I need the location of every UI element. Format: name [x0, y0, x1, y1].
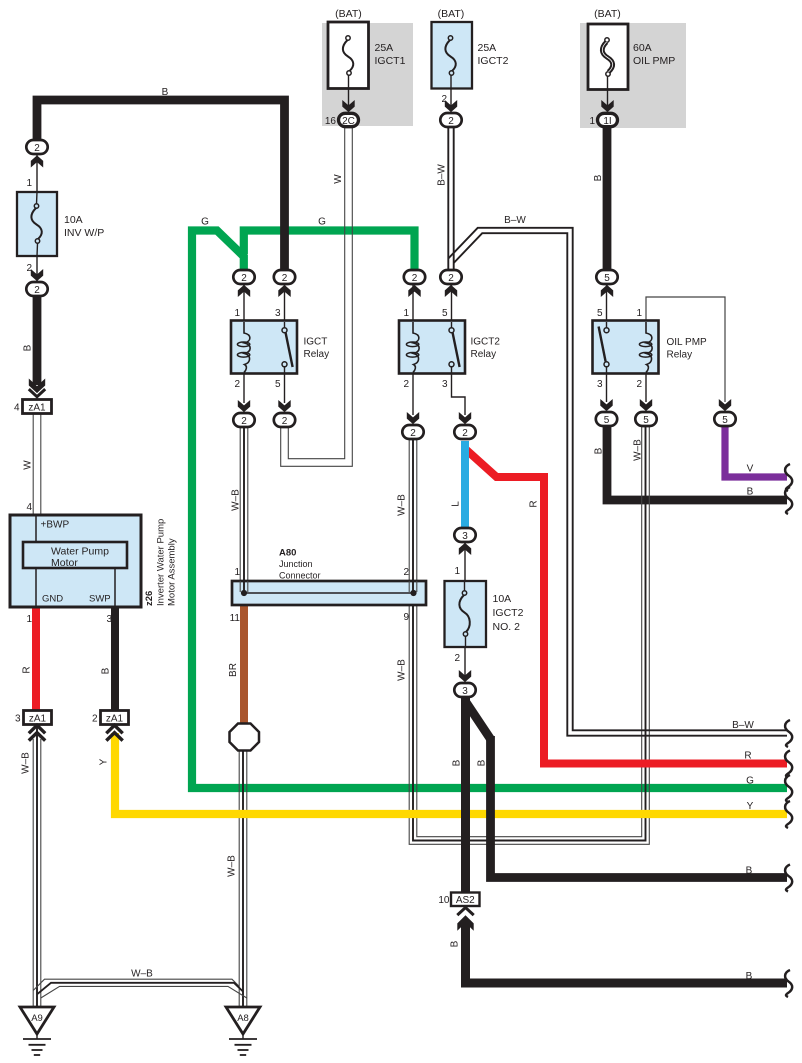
svg-text:4: 4 — [14, 403, 20, 414]
wire Y yellow from 2 zA1 to right edge — [115, 733, 787, 814]
svg-text:Relay: Relay — [667, 350, 693, 361]
wire W-B left from 3 zA1 to ground A9 — [32, 739, 34, 1007]
svg-text:11: 11 — [230, 613, 241, 624]
fuse 10A IGCT2 NO.2 box — [445, 581, 487, 647]
svg-text:1: 1 — [454, 566, 460, 577]
wire pin line OIL PMP relay pin5 — [606, 284, 608, 321]
connector 3 zA1 box — [24, 711, 52, 725]
wire pin line IGCT2 relay pin5 — [451, 284, 453, 321]
wire pin line z26 SWP inside — [114, 568, 116, 606]
connector 4 zA1 box — [23, 400, 52, 414]
arrow up into IGCT relay pin3 oval — [278, 285, 290, 297]
svg-text:B: B — [594, 447, 605, 454]
node A80 pin1 dot — [241, 590, 247, 596]
connector 2 zA1 box — [101, 711, 129, 725]
svg-text:G: G — [318, 217, 326, 228]
wire W-B loop A80 pin9 down right and up to OIL PMP relay pin2 oval — [409, 426, 649, 844]
svg-text:Junction: Junction — [279, 559, 313, 569]
svg-text:9: 9 — [403, 612, 409, 623]
arrow up into OIL PMP relay pin5 oval — [601, 285, 613, 297]
ground A8 — [226, 1007, 260, 1034]
fuse 25A IGCT1 box — [328, 22, 369, 89]
svg-text:3: 3 — [442, 379, 448, 390]
svg-text:2: 2 — [241, 273, 247, 284]
svg-text:zA1: zA1 — [28, 403, 46, 414]
svg-text:V: V — [747, 464, 754, 475]
svg-text:25A: 25A — [478, 42, 497, 54]
relay IGCT coil — [244, 322, 250, 373]
svg-text:B: B — [593, 174, 604, 181]
svg-text:2C: 2C — [342, 116, 355, 127]
wire pin line IGCT2 relay pin3 jog — [452, 373, 466, 415]
wire B-W from IGCT2 fuse down to relay pin5 oval — [447, 127, 449, 270]
svg-text:1: 1 — [403, 308, 409, 319]
wire L blue between ovals 3 — [461, 441, 469, 529]
arrow up into IGCT2 relay pin5 oval — [445, 285, 457, 297]
svg-text:2: 2 — [403, 567, 409, 578]
svg-text:OIL PMP: OIL PMP — [633, 55, 675, 67]
wire pin line OIL PMP relay pin3 — [606, 373, 608, 402]
wire W-B from IGCT2 relay pin2 oval to A80 pin2 — [408, 439, 410, 581]
wire B z26 SWP to 2 zA1 — [111, 606, 119, 711]
node oval 2 IGCT relay pin3 — [274, 270, 295, 284]
svg-text:5: 5 — [275, 379, 281, 390]
wire pin line IGCT2 relay pin1 — [412, 284, 414, 321]
relay IGCT2 box — [399, 321, 465, 374]
svg-text:2: 2 — [448, 273, 454, 284]
wire BR brown A80 pin11 to octagon — [240, 605, 248, 724]
svg-text:W–B: W–B — [397, 659, 408, 681]
node oval 5 OIL PMP relay pin3 lower — [596, 412, 617, 426]
svg-text:25A: 25A — [375, 42, 394, 54]
wire pin line IGCT relay pin3 — [284, 284, 286, 321]
node A80 pin2 dot — [410, 590, 416, 596]
svg-text:AS2: AS2 — [456, 895, 475, 906]
wire pin line IGCT relay pin5 — [284, 373, 286, 403]
arrow down into oval2 below INV W/P fuse — [31, 269, 43, 281]
node oval 2 IGCT2 relay pin5 — [440, 270, 461, 284]
svg-text:1: 1 — [234, 308, 240, 319]
svg-text:W: W — [333, 174, 344, 184]
wire pin line OIL PMP relay pin2 — [645, 373, 647, 402]
svg-text:3: 3 — [15, 714, 21, 725]
arrow down into oval2 under IGCT2 fuse — [445, 100, 457, 112]
svg-text:IGCT2: IGCT2 — [471, 337, 501, 348]
svg-text:60A: 60A — [633, 42, 652, 54]
node oval 2 IGCT2 relay pin1 — [404, 270, 425, 284]
svg-text:Connector: Connector — [279, 571, 321, 581]
svg-text:2: 2 — [454, 653, 460, 664]
node oval 2 IGCT relay pin1 — [233, 270, 254, 284]
svg-text:3: 3 — [462, 531, 468, 542]
svg-text:R: R — [744, 751, 751, 762]
svg-text:B–W: B–W — [437, 164, 448, 186]
svg-text:1: 1 — [26, 614, 32, 625]
wire pin line oval3 to IGCT2 NO.2 fuse — [464, 543, 466, 581]
wire z26 pin4 internal lead — [35, 516, 37, 542]
svg-text:B–W: B–W — [504, 215, 526, 226]
connector arrow double chevron into 4 zA1 — [29, 379, 45, 397]
wire pin line oval2 to INV W/P fuse — [36, 155, 38, 204]
wire pin line OIL PMP relay pin1 to oval5 — [646, 297, 725, 402]
svg-text:2: 2 — [462, 428, 468, 439]
node oval 2C — [339, 113, 359, 127]
fuse panel OIL PMP (gray) — [580, 23, 686, 128]
wire W from connector 2C down then to IGCT relay pin5 oval — [288, 127, 344, 459]
fuse 25A IGCT2 box — [432, 22, 473, 89]
svg-text:2: 2 — [282, 273, 288, 284]
svg-text:2: 2 — [412, 273, 418, 284]
svg-text:R: R — [22, 666, 33, 673]
wire pin line OIL PMP fuse to 1I — [607, 76, 609, 107]
svg-text:B: B — [452, 759, 463, 766]
brace G wire — [785, 775, 792, 802]
svg-text:W–B: W–B — [231, 489, 242, 511]
svg-text:2: 2 — [241, 416, 247, 427]
svg-text:W: W — [23, 460, 34, 470]
relay OIL PMP coil — [646, 322, 652, 373]
svg-text:1: 1 — [234, 567, 240, 578]
fuse panel IGCT1 (gray) — [322, 23, 413, 126]
svg-text:1: 1 — [636, 308, 642, 319]
arrow down from IGCT2 relay pin2 — [407, 412, 419, 424]
octagon splice — [230, 724, 260, 751]
svg-text:B: B — [23, 344, 34, 351]
arrow up into IGCT relay pin1 oval — [238, 285, 250, 297]
connector arrow chevrons below 3 zA1 — [29, 725, 45, 740]
svg-text:(BAT): (BAT) — [438, 8, 465, 20]
svg-text:2: 2 — [92, 714, 98, 725]
brace V wire — [785, 464, 792, 491]
wire B thick horizontal y=500 from relay pin3 to right edge — [607, 425, 787, 500]
svg-text:B: B — [746, 971, 753, 982]
node oval 2 IGCT2 relay pin2 lower — [402, 425, 423, 439]
node oval 2 below INV W/P fuse — [26, 282, 47, 296]
svg-text:B: B — [101, 667, 112, 674]
node oval 5 OIL PMP relay pin2 lower — [635, 412, 656, 426]
node oval 2 IGCT relay pin5 lower — [274, 413, 295, 427]
svg-text:IGCT1: IGCT1 — [375, 55, 406, 67]
svg-text:3: 3 — [462, 686, 468, 697]
svg-text:Relay: Relay — [471, 349, 497, 360]
wire pin line IGCT2 NO.2 fuse to oval3 — [464, 647, 466, 680]
svg-text:Relay: Relay — [304, 349, 330, 360]
svg-text:B–W: B–W — [732, 720, 754, 731]
brace B wire y500 — [785, 487, 792, 514]
arrow down from OIL PMP relay pin3 — [600, 399, 612, 411]
svg-text:2: 2 — [448, 116, 454, 127]
svg-text:5: 5 — [442, 308, 448, 319]
svg-text:(BAT): (BAT) — [335, 8, 362, 20]
svg-text:L: L — [451, 501, 462, 507]
node oval 2 top left — [26, 140, 47, 154]
wire z26 SWP internal lead — [114, 568, 116, 606]
ground A9 — [20, 1007, 54, 1034]
brace B wire y877 — [785, 865, 792, 892]
svg-text:16: 16 — [325, 116, 337, 127]
node oval 3 below NO.2 fuse — [454, 683, 475, 697]
svg-text:3: 3 — [106, 614, 112, 625]
wire B top horizontal from left chain to IGCT relay pin3 — [37, 100, 285, 271]
brace Y wire — [785, 801, 792, 828]
brace R wire — [785, 751, 792, 778]
wire pin line IGCT2 fuse to oval2 — [450, 75, 452, 107]
svg-text:3: 3 — [275, 308, 281, 319]
wire pin line z26 pin4 inside — [35, 516, 37, 542]
svg-text:2: 2 — [26, 263, 32, 274]
svg-text:2: 2 — [410, 428, 416, 439]
arrow up into oval3 above NO.2 fuse — [459, 543, 471, 555]
wire V purple from oval 5 to right edge — [725, 424, 787, 477]
svg-text:z26: z26 — [144, 591, 155, 606]
svg-text:W–B: W–B — [21, 752, 32, 774]
svg-text:Motor Assembly: Motor Assembly — [167, 538, 178, 606]
svg-text:A9: A9 — [31, 1013, 43, 1024]
wire B from oval 3 to AS2 and branch to right edge — [461, 697, 470, 893]
node oval 5 OIL PMP relay pin1 lower — [714, 412, 735, 426]
fuse 10A INV W/P box — [17, 192, 57, 256]
wire B below AS2 to right edge — [466, 920, 788, 983]
svg-text:SWP: SWP — [89, 594, 111, 605]
svg-text:B: B — [746, 866, 753, 877]
connector AS2 box — [451, 893, 480, 907]
node oval 3 above NO.2 fuse — [454, 528, 475, 542]
svg-text:B: B — [162, 87, 169, 98]
wire W at 4 zA1 to z26 pin 4 — [32, 413, 34, 515]
wire pin line IGCT2 relay pin2 — [412, 373, 414, 415]
svg-text:4: 4 — [26, 502, 32, 513]
svg-text:Inverter Water Pump: Inverter Water Pump — [156, 519, 167, 606]
relay IGCT2 switch — [451, 322, 453, 328]
svg-text:G: G — [746, 776, 754, 787]
svg-text:(BAT): (BAT) — [594, 8, 621, 20]
wire G green right branch from diagonal foot to IGCT2 relay pin1 oval — [244, 231, 415, 271]
svg-text:10A: 10A — [493, 593, 512, 605]
svg-text:1I: 1I — [603, 116, 611, 127]
svg-text:R: R — [529, 500, 540, 507]
wire pin line IGCT relay pin1 — [243, 284, 245, 321]
svg-text:BR: BR — [228, 663, 239, 677]
relay OIL PMP switch — [606, 322, 608, 328]
svg-text:W–B: W–B — [131, 969, 153, 980]
svg-text:5: 5 — [604, 415, 610, 426]
svg-text:INV W/P: INV W/P — [64, 227, 104, 239]
svg-text:IGCT2: IGCT2 — [478, 55, 509, 67]
svg-text:IGCT2: IGCT2 — [493, 607, 524, 619]
wire W-B from IGCT relay pin2 oval to A80 pin1 — [239, 427, 241, 581]
connector arrow chevrons below 2 zA1 — [106, 725, 122, 740]
arrow down from OIL PMP relay pin1 wire — [719, 399, 731, 411]
relay OIL PMP box — [593, 321, 659, 374]
wire z26 GND internal lead — [35, 568, 37, 606]
junction connector A80 box — [232, 581, 426, 605]
wire R red z26 GND to 3 zA1 — [32, 606, 40, 711]
svg-text:OIL PMP: OIL PMP — [667, 337, 708, 348]
svg-text:3: 3 — [597, 379, 603, 390]
svg-text:G: G — [201, 217, 209, 228]
arrow up into top-left oval2 — [31, 155, 43, 167]
svg-text:2: 2 — [441, 94, 447, 105]
fuse 60A OIL PMP box — [588, 24, 628, 90]
wire W-B from octagon to ground A8 — [238, 750, 240, 1007]
svg-text:5: 5 — [604, 273, 610, 284]
arrow down into 1I — [601, 100, 613, 112]
relay IGCT box — [231, 321, 297, 374]
brace B wire y983 — [785, 970, 792, 997]
z26 inverter water pump motor assembly box — [10, 515, 141, 607]
relay IGCT2 coil — [413, 322, 419, 373]
wire pin line z26 GND inside — [35, 568, 37, 606]
arrow down into oval3 below NO.2 fuse — [459, 670, 471, 682]
wire pin line INV W/P fuse to oval2 — [36, 244, 38, 282]
svg-text:1: 1 — [589, 116, 595, 127]
wire R red from L wire to right edge — [467, 450, 788, 764]
svg-text:A8: A8 — [237, 1013, 249, 1024]
svg-text:2: 2 — [234, 379, 240, 390]
svg-text:10A: 10A — [64, 214, 83, 226]
svg-text:W–B: W–B — [397, 494, 408, 516]
relay IGCT switch — [284, 322, 286, 328]
wire G green main: bottom horizontal, left vertical, top horizontal, drop to IGCT2 relay pin1 — [192, 231, 787, 789]
svg-text:2: 2 — [282, 416, 288, 427]
wire B OIL PMP fuse to relay oval — [603, 126, 612, 271]
connector arrow chevrons below AS2 — [457, 908, 473, 931]
svg-text:Y: Y — [99, 758, 110, 765]
wire W-B ground horizontal between A9 and A8 — [33, 979, 239, 990]
svg-text:2: 2 — [636, 379, 642, 390]
svg-text:5: 5 — [722, 415, 728, 426]
node oval 2 IGCT relay pin2 — [233, 413, 254, 427]
arrow down from IGCT2 relay pin3 — [459, 412, 471, 424]
node oval 5 OIL PMP relay pin5 — [596, 270, 617, 284]
svg-text:Water Pump: Water Pump — [51, 546, 109, 558]
svg-text:W–B: W–B — [633, 439, 644, 461]
svg-text:B: B — [450, 940, 461, 947]
arrow up into IGCT2 relay pin1 oval — [408, 285, 420, 297]
svg-text:W–B: W–B — [227, 855, 238, 877]
svg-text:2: 2 — [34, 143, 40, 154]
svg-text:A80: A80 — [279, 548, 296, 559]
wire pin line IGCT relay pin2 — [243, 373, 245, 403]
wire B-W branch diagonal, horizontal, down right side, to right edge — [448, 228, 787, 731]
svg-text:1: 1 — [26, 178, 32, 189]
water pump motor inner box — [23, 542, 127, 568]
svg-text:zA1: zA1 — [29, 714, 47, 725]
svg-text:GND: GND — [42, 594, 63, 605]
svg-text:2: 2 — [34, 285, 40, 296]
svg-text:5: 5 — [597, 308, 603, 319]
wire pin line IGCT1 fuse to 2C — [348, 75, 350, 107]
node oval 1I below OIL PMP fuse — [598, 113, 618, 127]
svg-text:Y: Y — [747, 801, 754, 812]
svg-text:2: 2 — [403, 379, 409, 390]
svg-text:zA1: zA1 — [106, 714, 124, 725]
arrow down from IGCT relay pin2 — [238, 400, 250, 412]
node oval 2 below IGCT2 fuse — [440, 113, 461, 127]
svg-text:10: 10 — [438, 895, 450, 906]
node oval 2 IGCT2 relay pin3 lower — [454, 425, 475, 439]
svg-text:B: B — [477, 759, 488, 766]
svg-text:IGCT: IGCT — [304, 337, 328, 348]
svg-text:Motor: Motor — [51, 557, 78, 569]
arrow down into 2C — [342, 100, 354, 112]
svg-text:NO. 2: NO. 2 — [493, 621, 521, 633]
arrow down from OIL PMP relay pin2 — [640, 399, 652, 411]
wire B left below fuse oval to 4 zA1 — [33, 295, 42, 385]
svg-text:B: B — [747, 487, 754, 498]
brace B-W wire — [785, 720, 792, 747]
svg-text:5: 5 — [643, 415, 649, 426]
arrow down from IGCT relay pin5 — [278, 400, 290, 412]
svg-text:+BWP: +BWP — [41, 520, 70, 531]
